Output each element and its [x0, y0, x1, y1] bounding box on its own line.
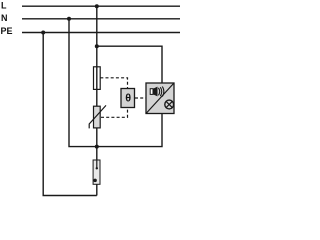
- node bottom junction: [95, 145, 99, 149]
- node PE junction: [41, 31, 45, 35]
- wire PE drop: [43, 33, 97, 196]
- node L junction: [95, 4, 99, 8]
- thermal disconnect θ: [121, 89, 135, 108]
- varistor RV1: [89, 105, 106, 128]
- wire PE rail: [22, 32, 180, 34]
- indicator/alarm unit: [146, 83, 174, 114]
- buzzer icon: [150, 87, 164, 97]
- dashed link varistor to thermal: [101, 108, 128, 118]
- dashed link thermal to indicator: [135, 97, 146, 99]
- wire indicator return: [97, 114, 162, 147]
- wire L rail: [22, 5, 180, 7]
- svg-text:N: N: [1, 13, 8, 23]
- node branch junction: [95, 44, 99, 48]
- wire varistor to bottom node: [96, 128, 98, 161]
- wire N drop: [69, 19, 97, 147]
- gas discharge tube: [93, 160, 100, 184]
- wire N rail: [22, 18, 180, 20]
- wire branch to indicator: [97, 46, 162, 83]
- svg-text:L: L: [1, 0, 7, 10]
- wire GDT to PE: [96, 184, 98, 195]
- dashed link fuse to thermal: [100, 78, 127, 88]
- svg-text:θ: θ: [125, 93, 131, 105]
- fuse F1: [94, 67, 101, 90]
- wire L drop: [96, 6, 98, 106]
- lamp icon: [165, 100, 174, 109]
- svg-text:PE: PE: [1, 26, 13, 36]
- node N junction: [67, 17, 71, 21]
